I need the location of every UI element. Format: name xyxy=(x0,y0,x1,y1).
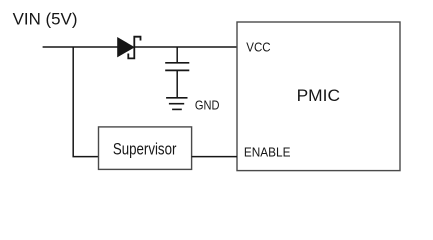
ground symbol xyxy=(166,98,187,110)
IC U1 PMIC box xyxy=(237,22,400,171)
capacitor C1 top lead xyxy=(176,47,178,63)
svg-text:VIN (5V): VIN (5V) xyxy=(13,10,78,29)
svg-text:Supervisor: Supervisor xyxy=(113,140,177,159)
svg-text:ENABLE: ENABLE xyxy=(244,145,291,160)
diode D1 (Schottky) triangle xyxy=(118,38,134,57)
supervisor U2 box xyxy=(99,127,192,169)
capacitor C1 bottom plate xyxy=(165,69,189,71)
wire: VIN to diode anode xyxy=(43,46,119,48)
capacitor C1 top plate xyxy=(165,62,189,64)
svg-text:PMIC: PMIC xyxy=(297,86,340,105)
svg-text:VCC: VCC xyxy=(246,39,270,54)
wire: branch down to Supervisor xyxy=(73,47,98,157)
svg-text:GND: GND xyxy=(195,98,220,113)
wire: diode cathode to PMIC VCC pin xyxy=(134,46,237,48)
capacitor C1 bottom lead xyxy=(176,70,178,97)
diode D1 cathode bar with Schottky hooks xyxy=(128,37,140,59)
wire: Supervisor output to PMIC ENABLE pin xyxy=(192,156,237,158)
